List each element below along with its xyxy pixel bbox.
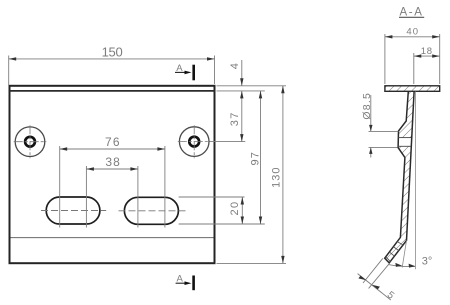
slot left centerline <box>41 210 106 212</box>
bottom bend line <box>11 237 214 239</box>
hole right centerlines <box>178 141 210 143</box>
svg-text:20: 20 <box>229 200 241 215</box>
hole left centerlines <box>14 141 47 143</box>
plate outline <box>10 86 215 263</box>
dimension 18 <box>413 53 415 84</box>
hole left inner <box>25 137 35 147</box>
section flange <box>385 86 440 92</box>
hole left outer <box>15 127 45 157</box>
dimension 38 <box>86 166 137 228</box>
dimension 37 <box>241 91 243 142</box>
dimension 4 <box>241 60 243 86</box>
slot right <box>124 197 178 224</box>
extension line hole center <box>210 141 246 143</box>
dimension 150 <box>9 56 215 86</box>
dimension 40 <box>385 34 440 84</box>
svg-text:18: 18 <box>421 46 433 57</box>
extension line plate top <box>217 85 287 87</box>
section stem body <box>385 91 414 263</box>
hole right outer <box>179 127 209 157</box>
svg-text:37: 37 <box>229 111 241 126</box>
dimension 76 <box>60 146 165 228</box>
dimension 5 <box>358 258 391 300</box>
svg-text:150: 150 <box>102 45 123 60</box>
svg-text:A: A <box>176 63 183 74</box>
svg-text:A-A: A-A <box>400 7 424 19</box>
svg-text:4: 4 <box>229 63 241 69</box>
top bend line <box>10 90 215 92</box>
svg-text:3°: 3° <box>422 256 433 268</box>
section mark bottom A <box>176 274 194 291</box>
slot left <box>46 197 100 224</box>
extension line slot top <box>179 196 245 198</box>
svg-text:76: 76 <box>105 135 121 149</box>
extension line plate bottom <box>217 262 287 264</box>
dimension 3 degrees <box>389 265 416 267</box>
section stem outline <box>385 91 414 263</box>
vertical reference line <box>414 92 416 270</box>
hole void in section <box>398 138 411 147</box>
hole right inner <box>189 137 199 147</box>
svg-text:A: A <box>177 274 184 285</box>
svg-text:38: 38 <box>105 155 121 169</box>
extension line bend top <box>217 90 265 92</box>
dimension 20 <box>241 197 243 224</box>
stem edge extension line <box>402 241 406 268</box>
dimension 130 <box>282 86 284 264</box>
dimension 97 <box>260 91 262 224</box>
hole edge lines <box>398 137 411 139</box>
section mark top A <box>175 63 194 81</box>
svg-text:97: 97 <box>250 151 262 166</box>
dimension dia 8.5 <box>369 95 399 158</box>
hatch rungs lower bend piece <box>386 242 403 262</box>
svg-text:40: 40 <box>406 26 419 37</box>
extension line slot bottom <box>179 223 265 225</box>
slot right centerline <box>119 210 187 212</box>
svg-text:Ø8.5: Ø8.5 <box>361 92 373 120</box>
svg-text:130: 130 <box>271 167 283 188</box>
